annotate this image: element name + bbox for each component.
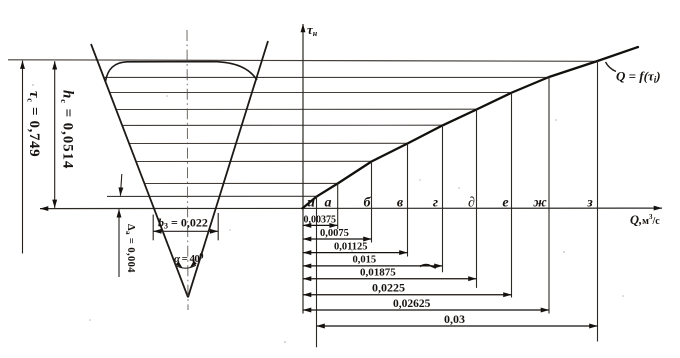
svg-text:б: б: [364, 196, 372, 211]
drop line v: [407, 144, 409, 257]
svg-text:з: з: [586, 196, 593, 211]
dim row 5 line: [303, 278, 477, 280]
svg-text:0,00375: 0,00375: [304, 215, 337, 226]
svg-text:ж: ж: [533, 196, 547, 211]
alpha angle arc: [177, 265, 197, 268]
tau_c dimension arrow: [22, 61, 24, 254]
svg-text:и: и: [307, 196, 315, 211]
datum line (top water level): [8, 60, 596, 62]
svg-text:0,0075: 0,0075: [320, 228, 349, 239]
delta up arrow: [118, 209, 120, 277]
channel left wall: [91, 44, 188, 297]
level line 4: [116, 108, 476, 110]
b3 dimension line: [153, 230, 218, 232]
dim row 6 line: [303, 294, 512, 296]
drop line z: [597, 61, 599, 342]
scan speckles: [32, 60, 624, 343]
drop line e: [511, 93, 513, 298]
dim row 4 extra arrow mark: [420, 265, 436, 268]
delta down arrow: [120, 174, 121, 196]
dim row 2 line: [303, 238, 372, 240]
level line 9 (delta reference): [107, 195, 317, 197]
tau axis (vertical): [302, 24, 304, 314]
svg-text:г: г: [433, 196, 438, 211]
h_c dimension arrow: [54, 61, 56, 208]
drop line g: [442, 125, 444, 272]
svg-text:0,0225: 0,0225: [372, 281, 405, 295]
drop line i: [316, 196, 318, 347]
ground axis line: [40, 207, 662, 210]
curve Q = f(tau): [303, 47, 639, 208]
svg-text:0,01875: 0,01875: [360, 267, 396, 279]
svg-text:0,03: 0,03: [444, 312, 465, 326]
svg-text:в: в: [397, 196, 404, 211]
channel centerline (dash-dot): [187, 30, 188, 310]
drop line d: [476, 110, 478, 288]
drop line zh: [548, 77, 550, 314]
b3 right extension line: [217, 213, 219, 240]
svg-text:∂: ∂: [468, 196, 475, 211]
level line 8: [144, 182, 337, 184]
dim row 8 line: [317, 325, 598, 327]
dim row 3 line: [303, 252, 408, 254]
alpha arc right arrowhead: [190, 261, 197, 269]
svg-text:а: а: [325, 196, 332, 211]
channel right wall: [188, 41, 268, 297]
svg-text:е: е: [502, 196, 508, 211]
svg-text:Q,м3/с: Q,м3/с: [630, 213, 660, 227]
level line 3: [110, 92, 512, 94]
curve label leader: [606, 62, 617, 72]
alpha arc left arrowhead: [176, 261, 183, 269]
drop line b: [371, 162, 373, 243]
level line 6: [129, 142, 407, 144]
water surface dome: [106, 62, 258, 82]
drop line a: [337, 184, 339, 230]
svg-text:0,015: 0,015: [353, 255, 377, 266]
dim row 4 line: [303, 265, 443, 267]
dim row 1 line: [303, 224, 338, 226]
level line 7: [136, 160, 372, 162]
dim row 7 line: [303, 309, 549, 311]
level line 2: [104, 76, 549, 78]
b3 left extension line: [152, 215, 154, 241]
svg-text:0,02625: 0,02625: [393, 298, 431, 310]
svg-text:0,01125: 0,01125: [334, 242, 368, 253]
level line 5: [122, 124, 442, 126]
